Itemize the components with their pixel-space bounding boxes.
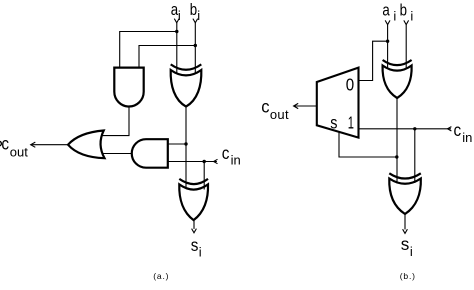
- wire AND2 output to OR input: [102, 153, 131, 155]
- wire AND1 output to OR input: [102, 107, 130, 136]
- XOR gate X1 input curve: [171, 64, 202, 69]
- XOR gate X3 input curve: [383, 60, 412, 65]
- svg-text:c: c: [222, 143, 230, 163]
- wire AND2 top input: [168, 143, 186, 145]
- wire c_in to XOR2 input: [203, 162, 205, 190]
- wire b_i vertical (a): [194, 23, 196, 74]
- input arrow b_i (b): [404, 20, 409, 24]
- wire a_i to mux input 0: [359, 41, 388, 80]
- svg-text:i: i: [393, 8, 396, 23]
- junction a_i to mux 0 input: [386, 40, 389, 43]
- junction XOR1 out / AND2 input: [184, 142, 187, 145]
- wire c_out (a): [31, 144, 68, 146]
- output arrow c_out (a): [31, 142, 36, 147]
- svg-text:(a.): (a.): [153, 271, 169, 281]
- wire s_i output (a): [193, 220, 195, 229]
- wire s_i output (b): [404, 214, 406, 229]
- wire XOR1 output down: [185, 107, 187, 189]
- input arrow a_i (b): [385, 20, 390, 24]
- XOR gate X4 input curve: [389, 173, 421, 178]
- AND gate A2: [132, 139, 168, 168]
- svg-text:(b.): (b.): [400, 271, 416, 281]
- svg-text:i: i: [410, 244, 413, 259]
- node s_i label (a): [191, 235, 202, 259]
- wire b_i to AND1 input: [139, 46, 195, 68]
- node a_i label (a): [171, 1, 181, 24]
- svg-text:1: 1: [348, 113, 354, 133]
- wire mux select to XOR3 output: [339, 131, 397, 157]
- node c_in label (b): [454, 120, 473, 145]
- junction c_in branch (a): [203, 160, 206, 163]
- svg-text:in: in: [231, 153, 241, 168]
- wire c_in (b): [359, 128, 451, 130]
- svg-text:c: c: [1, 133, 9, 153]
- wire a_i vertical (b): [387, 25, 389, 69]
- junction a_i to AND1: [175, 30, 178, 33]
- node a_i label (b): [382, 1, 396, 23]
- junction select on XOR3 output: [395, 155, 398, 158]
- svg-text:i: i: [197, 8, 200, 23]
- input arrow a_i (a): [174, 19, 179, 23]
- input arrow b_i (a): [193, 19, 198, 23]
- node b_i label (b): [400, 1, 414, 23]
- wire c_in (a): [168, 161, 217, 163]
- wire a_i to AND1 input: [120, 32, 177, 68]
- AND gate A1: [114, 68, 143, 107]
- input arrow c_in (b): [448, 127, 452, 131]
- XOR gate X2 body: [179, 184, 208, 220]
- svg-text:i: i: [410, 8, 413, 23]
- node c_in label (a): [222, 143, 241, 168]
- node s_i label (b): [401, 233, 413, 258]
- output arrow c_out (b): [294, 103, 299, 108]
- node c_out label (a): [1, 133, 28, 159]
- output arrow s_i (b): [403, 229, 408, 233]
- input arrow c_in (a): [214, 159, 218, 163]
- XOR gate X4 body: [389, 179, 421, 215]
- svg-text:c: c: [261, 96, 270, 117]
- svg-text:out: out: [10, 144, 28, 159]
- OR gate O1: [68, 131, 105, 159]
- junction b_i to AND1: [194, 44, 197, 47]
- clipped glyph at left edge: [0, 141, 1, 145]
- svg-text:s: s: [191, 235, 199, 255]
- wire c_in to XOR4 input: [414, 129, 416, 183]
- svg-text:in: in: [462, 130, 472, 145]
- svg-text:s: s: [401, 233, 410, 254]
- svg-text:out: out: [270, 107, 289, 122]
- XOR gate X1 body: [171, 70, 202, 107]
- wire a_i vertical (a): [176, 23, 178, 74]
- svg-text:b: b: [400, 1, 407, 20]
- mux U1: [317, 68, 359, 138]
- XOR gate X2 input curve: [179, 179, 208, 184]
- XOR gate X3 body: [383, 66, 412, 99]
- svg-text:i: i: [199, 244, 202, 259]
- svg-text:0: 0: [346, 74, 354, 95]
- node c_out label (b): [261, 96, 289, 122]
- wire XOR3 output down: [396, 98, 398, 184]
- svg-text:b: b: [190, 1, 197, 20]
- wire b_i vertical (b): [405, 25, 407, 69]
- svg-text:s: s: [330, 113, 337, 133]
- wire c_out (b): [294, 105, 317, 107]
- node b_i label (a): [190, 1, 200, 24]
- svg-text:a: a: [382, 1, 390, 20]
- output arrow s_i (a): [192, 229, 197, 233]
- junction c_in branch (b): [413, 127, 416, 130]
- svg-text:c: c: [454, 120, 462, 140]
